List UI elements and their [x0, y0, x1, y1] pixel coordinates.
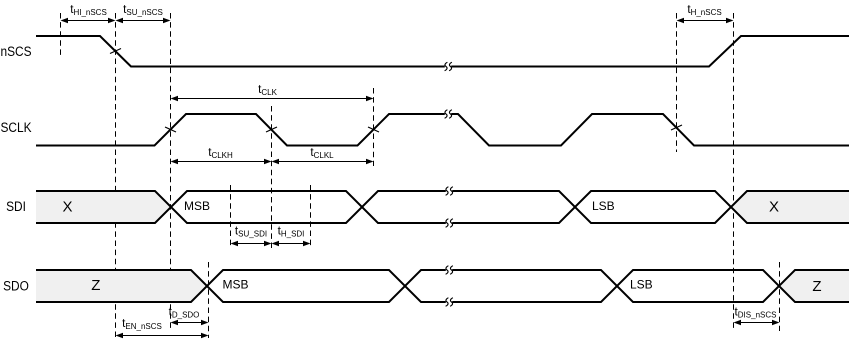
svg-text:SDI: SDI	[6, 198, 26, 214]
svg-text:X: X	[62, 199, 72, 216]
svg-text:MSB: MSB	[223, 278, 249, 292]
svg-text:X: X	[769, 199, 779, 216]
svg-text:LSB: LSB	[592, 199, 615, 213]
svg-text:SCLK: SCLK	[0, 119, 31, 135]
svg-text:SDO: SDO	[3, 278, 29, 294]
svg-text:Z: Z	[812, 278, 821, 295]
svg-text:LSB: LSB	[630, 278, 653, 292]
svg-text:Z: Z	[91, 277, 100, 294]
svg-text:MSB: MSB	[184, 199, 210, 213]
svg-text:nSCS: nSCS	[0, 43, 31, 59]
